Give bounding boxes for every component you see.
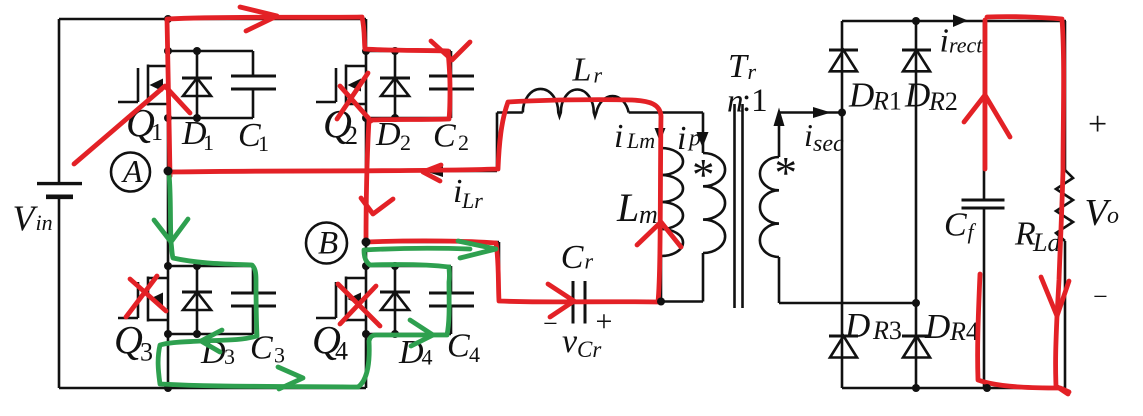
wire rectifier bottom rail	[842, 387, 1066, 390]
diode DR4 triangle	[903, 336, 930, 358]
transformer primary branch	[702, 113, 705, 302]
svg-text:+: +	[1088, 106, 1107, 143]
svg-text:C: C	[944, 207, 967, 244]
diode D4	[394, 266, 397, 334]
diode DR3 triangle	[830, 336, 857, 358]
svg-text:Q: Q	[114, 318, 143, 363]
wire red Cf bottom segment	[978, 274, 1069, 392]
inductor Lr	[497, 111, 523, 114]
capacitor C4	[450, 266, 453, 334]
red arrow Lm caret	[637, 222, 681, 247]
cell Q2 bottom horizontal	[366, 117, 451, 120]
wire red Cf up segment	[983, 20, 988, 169]
svg-text::1: :1	[742, 83, 768, 119]
resistor RLd branch	[1064, 21, 1067, 170]
cell Q2 top horizontal	[366, 50, 451, 53]
diode DR4	[902, 335, 931, 338]
capacitor Cf branch	[983, 21, 986, 388]
svg-text:C: C	[433, 118, 456, 155]
wire red A-up-rail-Q2-B	[167, 17, 450, 243]
red X over Q4	[338, 284, 380, 326]
svg-text:D: D	[848, 76, 874, 115]
svg-text:Lm: Lm	[626, 128, 655, 153]
svg-text:r: r	[748, 59, 757, 84]
svg-text:r: r	[585, 249, 594, 274]
arrow iLm	[655, 128, 666, 142]
diode D1 triangle	[183, 78, 211, 96]
svg-text:+: +	[596, 305, 613, 338]
red arrow iLr left	[423, 165, 441, 181]
diode DR1 triangle	[830, 50, 857, 71]
svg-text:i: i	[940, 23, 949, 60]
diode D2 triangle	[381, 78, 409, 96]
green arrow bottom rail right	[278, 367, 303, 389]
svg-text:sec: sec	[813, 131, 844, 157]
diode DR1	[829, 49, 858, 52]
diode D1	[196, 51, 199, 118]
transformer secondary coil	[760, 157, 779, 257]
svg-text:L: L	[616, 185, 639, 230]
svg-text:3: 3	[140, 338, 153, 367]
svg-text:*: *	[775, 148, 798, 198]
svg-text:R4: R4	[949, 317, 979, 346]
diode D3 triangle	[183, 292, 211, 310]
cell Q1 top horizontal	[168, 50, 253, 53]
svg-text:p: p	[687, 126, 701, 152]
svg-text:Lr: Lr	[461, 188, 483, 213]
capacitor Cr	[573, 281, 585, 324]
arrow isec up	[774, 108, 785, 127]
cell Q3 top horizontal	[168, 265, 253, 268]
wire red B-Cr-Lm-Lr-A	[172, 100, 661, 302]
wire riser to Lr	[496, 113, 499, 172]
Cf bottom junction dot	[983, 384, 991, 392]
svg-text:f: f	[968, 219, 977, 244]
red X over Q3	[126, 276, 166, 317]
transformer primary coil	[703, 153, 725, 253]
wire Lm branch	[660, 113, 663, 302]
node A junction dot	[164, 167, 173, 176]
svg-text:1: 1	[258, 131, 269, 156]
svg-text:Cr: Cr	[577, 337, 602, 362]
arrow ip	[697, 132, 709, 148]
svg-text:4: 4	[469, 342, 480, 367]
svg-text:−: −	[1093, 282, 1108, 311]
svg-text:rect: rect	[949, 33, 983, 58]
svg-text:C: C	[561, 239, 584, 276]
svg-text:D: D	[924, 307, 950, 346]
svg-text:1: 1	[151, 120, 163, 146]
svg-text:R2: R2	[928, 87, 958, 116]
wire green A-Q3cell-bottom-Q4cell-B	[158, 174, 470, 387]
svg-text:3: 3	[274, 343, 285, 368]
svg-text:1: 1	[203, 130, 214, 155]
transistor Q3	[118, 277, 168, 322]
transistor Q4	[316, 277, 366, 322]
node B circle	[306, 223, 347, 264]
wire left source branch	[58, 19, 61, 388]
node A circle	[111, 153, 150, 192]
arrow irect	[953, 15, 968, 28]
wire rectifier left leg	[841, 21, 844, 388]
red arrow above B	[361, 198, 393, 214]
svg-text:4: 4	[422, 345, 433, 370]
svg-text:R3: R3	[872, 316, 902, 345]
wire rail drop to Q2 cell	[365, 19, 368, 51]
wire secondary bottom	[779, 257, 916, 303]
capacitor C1	[252, 51, 255, 118]
transformer core	[735, 104, 743, 308]
svg-text:in: in	[36, 210, 53, 235]
cell Q4 top horizontal	[366, 265, 451, 268]
svg-text:D: D	[904, 76, 930, 115]
svg-text:i: i	[677, 120, 686, 157]
diode DR2	[902, 49, 931, 52]
svg-text:2: 2	[458, 130, 469, 155]
green current path overlay	[154, 174, 496, 389]
inductor Lm	[661, 148, 683, 256]
diode DR2 triangle	[903, 50, 930, 71]
capacitor C2	[450, 51, 453, 118]
svg-text:Ld: Ld	[1032, 228, 1061, 257]
svg-text:2: 2	[345, 121, 358, 150]
diode D4 triangle	[381, 292, 409, 310]
svg-text:i: i	[614, 118, 623, 155]
svg-text:*: *	[692, 150, 715, 200]
red X over Q2	[337, 73, 371, 121]
tank bottom junction dot	[657, 298, 665, 306]
diode D2	[394, 51, 397, 118]
wire red rail-load-down	[987, 17, 1068, 394]
wire tank bottom	[499, 300, 703, 303]
battery Vin	[37, 184, 82, 197]
red arrow Cf caret	[964, 95, 1010, 137]
wire B to tank	[366, 241, 499, 244]
wire secondary top isec	[779, 113, 842, 158]
svg-text:4: 4	[335, 337, 348, 366]
wire bottom rail primary	[59, 387, 366, 390]
svg-text:r: r	[594, 63, 603, 88]
wire bridge leg 2	[365, 51, 368, 388]
wire A to tank	[168, 170, 497, 173]
svg-text:R1: R1	[872, 87, 902, 116]
red arrow load V down	[1041, 277, 1069, 316]
svg-text:B: B	[318, 226, 338, 262]
svg-text:D: D	[844, 306, 870, 345]
wire rectifier top rail	[842, 20, 1066, 23]
green arrow B wire end	[458, 241, 496, 258]
svg-text:2: 2	[400, 130, 411, 155]
svg-text:i: i	[804, 117, 813, 153]
red arrow Q1 caret	[74, 86, 190, 164]
red arrow C2 down	[431, 41, 470, 60]
red arrow Cr right	[548, 284, 574, 317]
transistor Q1	[118, 65, 168, 106]
green arrow below A	[154, 219, 188, 242]
node B junction dot	[362, 238, 371, 247]
green arrow cell3 bottom left	[201, 330, 222, 352]
svg-text:A: A	[121, 153, 143, 189]
wire top rail primary	[59, 18, 366, 21]
wire bridge leg 1	[167, 19, 170, 388]
svg-text:T: T	[728, 48, 749, 85]
transistor Q2	[316, 65, 366, 106]
diode D3	[196, 266, 199, 334]
arrow isec right	[813, 107, 831, 118]
arrow iLr	[426, 166, 443, 177]
red arrow rail	[240, 7, 277, 31]
cell Q4 bottom horizontal	[366, 333, 451, 336]
diode DR3	[829, 335, 858, 338]
svg-text:o: o	[1107, 203, 1119, 229]
green arrow cell4 bottom right	[410, 320, 433, 346]
capacitor C3	[252, 266, 255, 334]
cell Q1 bottom horizontal	[168, 117, 253, 120]
svg-text:L: L	[572, 52, 592, 89]
svg-text:C: C	[447, 328, 470, 365]
svg-text:v: v	[562, 323, 578, 360]
cell Q3 bottom horizontal	[168, 333, 253, 336]
wire rectifier right leg	[915, 21, 918, 388]
svg-text:3: 3	[224, 344, 235, 369]
